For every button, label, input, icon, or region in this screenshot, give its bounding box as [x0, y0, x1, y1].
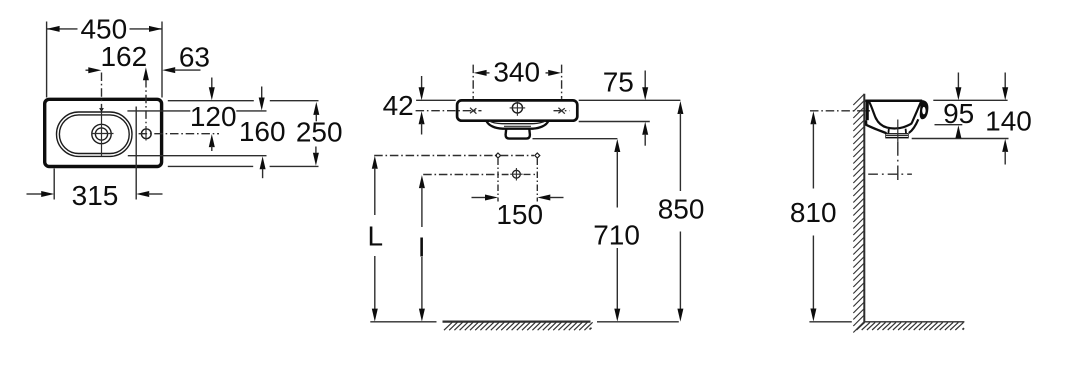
extension dashdot 340 right	[561, 65, 563, 99]
drain crosshair	[101, 108, 103, 157]
dimension 140	[1004, 73, 1006, 89]
fixing axis dashdot	[416, 110, 482, 112]
extension line 450 left	[46, 22, 48, 98]
spout bottom extension	[533, 138, 618, 140]
dimension 250	[313, 102, 319, 115]
svg-text:140: 140	[985, 106, 1032, 137]
bottom edge extension line right	[168, 165, 253, 167]
svg-text:162: 162	[100, 41, 147, 72]
bracket hole diamond left	[496, 153, 501, 158]
bracket hole diamond right	[535, 153, 540, 158]
bowl under curve thin	[489, 121, 546, 124]
dimension 340	[474, 70, 487, 76]
extension line 450 right	[161, 22, 163, 98]
extension dashdot 340 left	[472, 65, 474, 99]
extension line 150 left	[497, 159, 499, 202]
side drain flange	[885, 133, 908, 138]
overflow triangle	[99, 108, 104, 112]
basin front outline	[457, 100, 577, 120]
bowl bottom extension line	[128, 155, 267, 157]
side basin wall tab	[866, 100, 869, 120]
svg-text:315: 315	[72, 180, 119, 211]
svg-text:120: 120	[190, 101, 237, 132]
svg-text:42: 42	[383, 90, 414, 121]
basin outline top view	[45, 99, 162, 166]
dimension 42	[421, 76, 423, 88]
side basin underside slope	[866, 120, 887, 133]
top edge extension line right	[168, 100, 254, 102]
svg-text:95: 95	[943, 98, 974, 129]
bowl under inner line	[504, 125, 531, 127]
bowl outer rim	[57, 112, 133, 156]
drain spout trapezoid	[506, 129, 530, 139]
drain inner circle	[95, 128, 107, 140]
svg-text:150: 150	[496, 199, 543, 230]
svg-text:710: 710	[593, 220, 640, 251]
floor line left segment	[809, 321, 851, 323]
floor hatch right view	[857, 322, 965, 330]
extension line 315 left	[53, 169, 55, 200]
top edge extension left mid	[416, 99, 456, 101]
side basin apron hook	[920, 100, 929, 119]
side right underside slope	[909, 119, 919, 133]
side siphon dashdot horizontal	[868, 173, 912, 175]
svg-text:340: 340	[493, 57, 540, 88]
dimension 160	[261, 87, 263, 99]
svg-text:L: L	[368, 220, 384, 251]
fixing hole left front	[470, 108, 476, 114]
floor line right segment	[864, 321, 964, 323]
side drain stub walls	[887, 129, 889, 133]
svg-text:75: 75	[603, 66, 634, 97]
dimension 710	[614, 139, 620, 152]
dimension 75	[644, 71, 646, 89]
svg-text:250: 250	[296, 117, 343, 148]
tap hole front	[512, 103, 522, 113]
dimension L	[372, 156, 378, 169]
svg-text:63: 63	[179, 41, 210, 72]
bowl under curve thick	[486, 121, 548, 129]
dimension 150	[472, 197, 487, 199]
floor hatch middle	[444, 322, 593, 330]
side drain center line	[897, 120, 899, 142]
dimension 120	[211, 78, 213, 89]
side basin bowl inner wall	[869, 102, 912, 129]
svg-text:450: 450	[80, 13, 127, 44]
wall line	[863, 94, 865, 322]
drain outer circle	[92, 124, 111, 143]
tap centerline dashdot horizontal	[139, 133, 219, 135]
extension line 150 right	[536, 159, 538, 202]
siphon axis dashdot	[423, 174, 508, 176]
bracket holes axis dashdot	[374, 155, 534, 157]
svg-text:160: 160	[239, 116, 286, 147]
bowl top extension line	[127, 110, 190, 112]
side basin right inner slope	[912, 102, 921, 124]
fixing hole right front	[558, 108, 564, 114]
drain centerline dashdot	[101, 73, 103, 111]
dimension 850	[677, 101, 683, 114]
top edge extension right mid	[579, 99, 681, 101]
wall hatch	[853, 94, 864, 333]
siphon hole circle	[513, 170, 521, 178]
dimension 810	[810, 111, 816, 124]
dimension 450	[47, 28, 78, 30]
dimension 315	[27, 193, 43, 195]
dimension 63	[162, 67, 175, 73]
95 bottom line	[935, 124, 963, 126]
side basin rim top	[865, 100, 922, 103]
bowl inner rim	[59, 115, 129, 154]
dimension I	[419, 175, 425, 188]
810 axis dashdot	[810, 110, 871, 112]
floor line middle	[370, 321, 436, 323]
tap hole top view	[141, 129, 151, 139]
svg-text:I: I	[418, 232, 426, 263]
dimension 95	[957, 73, 959, 89]
tap centerline dashdot vertical	[145, 79, 147, 126]
bottom edge extension right mid	[579, 121, 650, 123]
svg-text:810: 810	[790, 197, 837, 228]
dimension 162	[86, 69, 91, 71]
140 bottom line	[912, 138, 1009, 140]
extension line 315 right	[135, 107, 137, 200]
rim top extension right view	[933, 99, 1007, 101]
svg-text:850: 850	[658, 193, 705, 224]
